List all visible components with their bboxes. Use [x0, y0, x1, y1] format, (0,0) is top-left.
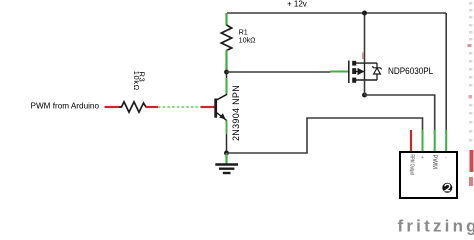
ground symbol	[215, 153, 238, 173]
wire collector	[226, 72, 228, 95]
wire +12v rail right drop to fan pin4	[445, 13, 447, 134]
fan pin4 leg (green)	[445, 130, 447, 153]
svg-text:+: +	[421, 155, 424, 161]
fan pin2 leg (green)	[422, 130, 424, 153]
svg-text:PWM: PWM	[431, 155, 437, 170]
wire gate horizontal	[227, 71, 332, 73]
resistor R1	[221, 13, 256, 72]
wire source to fan pin3	[365, 80, 435, 134]
right edge UI sliver	[468, 2, 474, 186]
resistor R3	[105, 71, 159, 112]
svg-text:10kΩ: 10kΩ	[239, 36, 257, 45]
junction node drain on rail	[362, 11, 367, 16]
transistor Q1 2N3904 NPN	[214, 85, 241, 141]
ratsnest base (green dashed)	[158, 106, 201, 108]
fan pin1 leg (red, unrouted)	[410, 130, 412, 152]
svg-text:NDP6030PL: NDP6030PL	[388, 66, 433, 77]
wire base leg (red)	[201, 106, 215, 108]
wire ground to fan pin2	[227, 118, 423, 153]
emitter pin leg (pale green)	[225, 121, 228, 135]
svg-text:fritzing: fritzing	[398, 216, 474, 235]
svg-text:+ 12v: + 12v	[287, 0, 307, 9]
fan part P1 (4-pin PC fan)	[400, 152, 457, 198]
wire drain to +12v rail	[364, 13, 366, 63]
junction node source	[362, 93, 367, 98]
wire +12v top rail	[227, 12, 446, 14]
MOSFET gate leg (green)	[330, 70, 349, 73]
wire emitter to ground	[226, 120, 228, 153]
svg-text:2N3904 NPN: 2N3904 NPN	[231, 85, 241, 141]
MOSFET U1 NDP6030PL	[349, 61, 433, 84]
drain pin red tick	[362, 53, 364, 60]
svg-text:PWM from Arduino: PWM from Arduino	[31, 100, 100, 110]
svg-text:RPM Output: RPM Output	[409, 155, 415, 176]
junction node ground	[224, 151, 229, 156]
collector pin leg (green)	[225, 78, 227, 94]
junction node J1 (gate/collector)	[224, 70, 229, 75]
svg-text:10kΩ: 10kΩ	[132, 71, 141, 91]
fan pin3 leg (green)	[434, 130, 436, 153]
